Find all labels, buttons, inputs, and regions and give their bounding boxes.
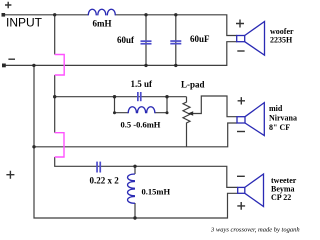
svg-text:Nirvana: Nirvana (269, 114, 297, 123)
svg-text:6mH: 6mH (93, 19, 112, 29)
svg-text:2235H: 2235H (270, 36, 293, 45)
svg-text:0.22 x 2: 0.22 x 2 (90, 176, 120, 186)
svg-text:INPUT: INPUT (6, 16, 43, 30)
svg-text:L-pad: L-pad (181, 80, 205, 90)
svg-text:8" CF: 8" CF (269, 123, 290, 132)
svg-text:0.15mH: 0.15mH (142, 187, 171, 197)
svg-text:60uf: 60uf (117, 35, 135, 45)
svg-text:0.5 -0.6mH: 0.5 -0.6mH (121, 120, 161, 130)
svg-text:60uF: 60uF (190, 34, 210, 44)
svg-text:mid: mid (269, 104, 283, 113)
svg-text:3 ways crossover, made by toga: 3 ways crossover, made by toganh (210, 227, 300, 234)
svg-text:1.5 uf: 1.5 uf (131, 79, 154, 89)
svg-text:CP 22: CP 22 (271, 193, 291, 202)
